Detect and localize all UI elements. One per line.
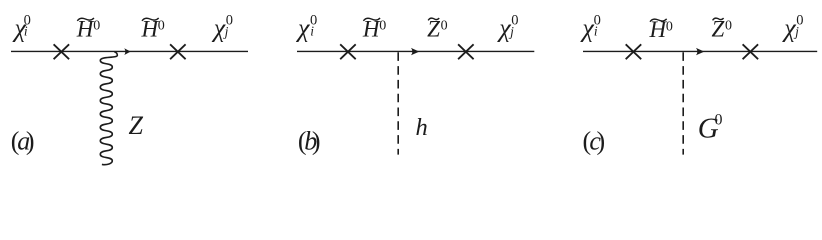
svg-text:i: i — [24, 24, 28, 39]
cross insertion X2 on line (a) — [170, 44, 186, 59]
svg-text:): ) — [312, 126, 321, 155]
label chi_j^0 (b) — [496, 13, 518, 43]
label Htilde^0 (b) — [362, 16, 386, 41]
dashed goldstone line G0 (c) — [682, 52, 684, 154]
dashed higgs line h (b) — [397, 52, 399, 154]
label G^0 on dashed line (c) — [698, 112, 723, 145]
svg-text:): ) — [26, 126, 35, 155]
label Htilde^0 first (a) — [76, 16, 100, 41]
svg-text:0: 0 — [379, 19, 386, 34]
label Ztilde^0 (c) — [712, 16, 733, 41]
svg-text:0: 0 — [93, 19, 100, 34]
label Ztilde^0 (b) — [427, 16, 448, 41]
svg-text:h: h — [416, 114, 428, 141]
fermion line (b) — [297, 50, 534, 52]
svg-text:0: 0 — [441, 19, 448, 34]
label Htilde^0 second (a) — [141, 16, 165, 41]
arrow head on line (c) — [696, 48, 704, 55]
svg-text:χ: χ — [295, 13, 310, 42]
svg-text:0: 0 — [715, 112, 723, 129]
svg-text:χ: χ — [211, 13, 226, 42]
label chi_j^0 (c) — [781, 13, 803, 43]
svg-text:χ: χ — [496, 13, 511, 42]
fermion line (a) — [11, 50, 248, 52]
label Htilde^0 (c) — [649, 17, 673, 42]
cross insertion X1 on line (a) — [54, 44, 70, 59]
svg-text:i: i — [310, 24, 314, 39]
svg-text:0: 0 — [666, 20, 673, 35]
svg-text:): ) — [597, 126, 606, 155]
label chi_j^0 (a) — [211, 13, 233, 43]
cross insertion X2 on line (c) — [743, 44, 759, 59]
fermion line (c) — [583, 50, 817, 52]
arrow head on line (a) — [124, 48, 130, 55]
label chi_i^0 (b) — [295, 13, 317, 43]
svg-text:i: i — [594, 24, 598, 39]
Z boson wavy line (a) — [100, 52, 117, 165]
label chi_i^0 (c) — [579, 13, 600, 43]
svg-text:χ: χ — [781, 13, 796, 42]
arrow head on line (b) — [411, 48, 419, 55]
cross insertion X2 on line (b) — [458, 44, 474, 59]
svg-text:χ: χ — [579, 13, 594, 42]
svg-text:0: 0 — [158, 19, 165, 34]
svg-text:Z: Z — [129, 111, 144, 140]
cross insertion X1 on line (c) — [626, 44, 642, 59]
svg-text:0: 0 — [725, 19, 732, 34]
label chi_i^0 (a) — [12, 13, 31, 43]
cross insertion X1 on line (b) — [340, 44, 356, 59]
